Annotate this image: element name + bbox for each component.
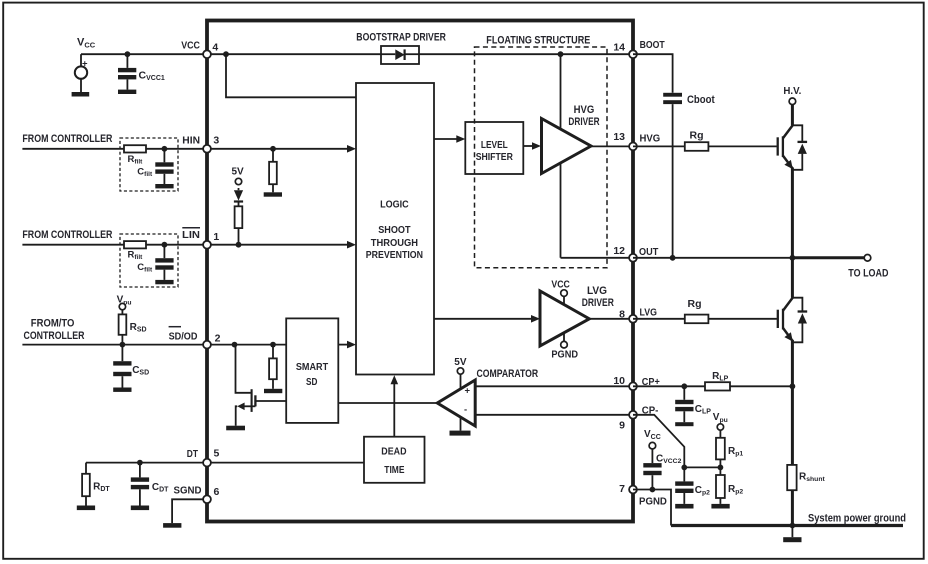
svg-text:HVG: HVG <box>574 104 595 116</box>
wire low-side emitter to shunt <box>791 340 794 465</box>
voltage source VCC <box>75 54 88 92</box>
svg-text:2: 2 <box>215 333 221 345</box>
svg-text:5V: 5V <box>232 167 245 178</box>
pin 3 HIN <box>182 135 219 153</box>
svg-text:Rg: Rg <box>688 298 702 310</box>
svg-text:9: 9 <box>619 420 625 432</box>
svg-text:LOGIC: LOGIC <box>380 198 409 210</box>
ground (CLP) <box>675 422 693 426</box>
wire pin 4 branch down to LOGIC block <box>226 54 356 97</box>
node junction Rp1/Rp2 <box>718 465 724 471</box>
svg-text:5V: 5V <box>454 357 467 368</box>
node TO LOAD terminal <box>848 254 888 279</box>
wire SGND pin to ground <box>172 499 207 523</box>
svg-text:Cboot: Cboot <box>687 94 715 106</box>
op-amp HVG driver <box>542 104 600 174</box>
node junction SD to MOSFET gate <box>232 342 238 348</box>
block LEVEL SHIFTER <box>465 122 523 174</box>
wire SMART SD output to LOGIC <box>338 341 356 349</box>
node junction CP+ / CLP <box>681 383 687 389</box>
wire comparator - input from pin 9 <box>475 414 633 416</box>
svg-text:6: 6 <box>214 486 220 498</box>
svg-text:8: 8 <box>619 309 625 321</box>
svg-text:BOOT: BOOT <box>640 39 666 51</box>
svg-text:FROM CONTROLLER: FROM CONTROLLER <box>22 229 112 241</box>
input filter dashed box (LIN) <box>120 234 178 287</box>
node H.V. terminal <box>783 85 801 105</box>
wire H.V. to high-side collector <box>791 105 794 126</box>
wire HVG driver supply rail (BOOT to OUT) <box>560 54 562 258</box>
resistor Rfilt (HIN) <box>124 145 146 165</box>
pin 2 SD/OD (active low SD) <box>169 327 221 349</box>
resistor HIN pull-down <box>269 149 277 193</box>
svg-text:5: 5 <box>214 447 220 459</box>
pin 13 HVG <box>613 131 660 150</box>
wire LOGIC to LVG driver <box>434 315 540 323</box>
resistor RLP <box>705 371 730 391</box>
node junction LIN filter <box>162 242 168 248</box>
wire comparator output to SMART SD <box>338 402 437 404</box>
svg-text:-: - <box>464 405 467 416</box>
svg-text:LVG: LVG <box>640 307 657 319</box>
svg-text:H.V.: H.V. <box>783 85 801 97</box>
svg-text:OUT: OUT <box>639 246 659 258</box>
wire SD junction to MOSFET gate <box>235 345 251 393</box>
svg-text:VCC: VCC <box>181 39 200 51</box>
wire OUT node to TO LOAD terminal <box>792 256 864 259</box>
node junction SD pull-down <box>270 342 276 348</box>
svg-text:PGND: PGND <box>639 496 667 508</box>
pin 8 LVG <box>619 307 657 323</box>
op-amp comparator <box>437 368 538 426</box>
resistor RSD <box>119 310 147 345</box>
node Vpu terminal (Rp1) <box>713 412 728 430</box>
capacitor Cboot <box>663 93 715 106</box>
node junction HIN filter <box>162 146 168 152</box>
wire CP+ pin to RLP <box>633 385 705 387</box>
diode 5V clamp (LIN) <box>234 188 243 206</box>
node junction on VCC wire <box>125 51 131 57</box>
wire LVG driver output to pin 8 <box>589 318 633 320</box>
node junction Cboot/OUT <box>670 255 676 261</box>
svg-text:13: 13 <box>613 131 625 143</box>
ground (RDT) <box>77 506 95 511</box>
svg-text:FROM/TO: FROM/TO <box>31 317 75 329</box>
svg-text:7: 7 <box>619 483 625 495</box>
svg-text:PREVENTION: PREVENTION <box>366 249 423 261</box>
node junction CVCC2 / PGND <box>650 487 656 493</box>
node junction BOOT rail to HVG driver <box>558 51 564 57</box>
capacitor CVCC1 <box>118 54 165 89</box>
svg-text:SD/OD: SD/OD <box>169 331 198 343</box>
ground (VCC source) <box>72 92 90 97</box>
svg-text:CONTROLLER: CONTROLLER <box>24 330 85 342</box>
wire SD/OD inside IC to SMART SD <box>207 344 286 346</box>
wire RLP to shunt node <box>730 385 792 387</box>
node PGND terminal (LVG driver) <box>551 333 578 361</box>
wire HVG pin to Rg <box>633 145 685 147</box>
op-amp LVG driver <box>540 285 614 346</box>
svg-text:3: 3 <box>213 135 219 147</box>
capacitor CVCC2 <box>643 449 681 490</box>
diode high-side freewheeling <box>792 125 807 170</box>
node VCC supply label <box>77 36 96 49</box>
ground (SD pull-down) <box>264 389 282 393</box>
node junction pin 4 branch <box>223 51 229 57</box>
wire HIN inside IC to LOGIC <box>207 145 356 153</box>
pin 7 PGND <box>619 483 667 508</box>
wire BOOT pin to Cboot <box>633 54 673 93</box>
dashed box FLOATING STRUCTURE <box>475 35 608 268</box>
wire DT pin to RDT/CDT <box>86 462 207 464</box>
svg-text:TIME: TIME <box>384 464 404 476</box>
svg-text:DRIVER: DRIVER <box>568 116 599 128</box>
svg-text:SGND: SGND <box>174 484 202 496</box>
pin 5 DT <box>187 447 220 466</box>
block DEAD TIME <box>364 437 425 483</box>
wire OUT pin to load <box>633 257 792 259</box>
capacitor Cfilt (HIN) <box>137 149 173 184</box>
label FROM/TO CONTROLLER (SD) <box>24 317 85 342</box>
svg-text:Rg: Rg <box>690 130 704 142</box>
node Vpu terminal (RSD) <box>117 294 132 310</box>
wire SD/OD input <box>22 344 207 346</box>
ground (CSD) <box>113 388 131 392</box>
wire divider node <box>684 466 720 468</box>
wire DEAD TIME to LOGIC <box>391 375 399 437</box>
capacitor CDT <box>131 463 169 506</box>
wire high-side emitter to OUT node <box>791 168 794 258</box>
resistor Rshunt <box>787 465 825 490</box>
wire system power ground bus <box>671 513 906 526</box>
node junction LIN clamp <box>236 242 242 248</box>
block LOGIC shoot-through prevention <box>356 83 434 375</box>
node 5V terminal (LIN clamp) <box>232 167 245 185</box>
wire LIN inside IC to LOGIC <box>207 241 356 249</box>
resistor SD pull-down <box>269 345 277 389</box>
svg-text:TO LOAD: TO LOAD <box>848 268 888 280</box>
svg-text:+: + <box>82 59 88 70</box>
node junction half-bridge output <box>790 255 796 261</box>
capacitor Cfilt (LIN) <box>137 245 173 280</box>
svg-text:PGND: PGND <box>551 349 578 361</box>
wire Rg to high-side IGBT gate <box>708 145 776 147</box>
resistor Rg (high side) <box>685 130 709 151</box>
node VCC terminal (LVG driver) <box>551 278 570 304</box>
pin 10 CP+ <box>613 375 659 390</box>
wire HIN input <box>22 148 207 150</box>
ground (Cfilt HIN) <box>155 184 173 188</box>
svg-text:LEVEL: LEVEL <box>481 139 508 151</box>
ground (system power ground) <box>783 526 801 543</box>
wire LEVEL SHIFTER to HVG driver <box>523 142 541 150</box>
block SMART SD <box>286 318 338 423</box>
capacitor CLP <box>675 386 711 422</box>
svg-text:FLOATING STRUCTURE: FLOATING STRUCTURE <box>486 35 590 47</box>
ground (SGND) <box>163 523 181 528</box>
capacitor Cp2 <box>675 467 710 504</box>
svg-text:SD: SD <box>306 376 318 388</box>
node junction DT <box>137 460 143 466</box>
svg-text:HIN: HIN <box>182 135 200 147</box>
wire Rg to low-side IGBT gate <box>708 318 777 320</box>
svg-text:10: 10 <box>613 375 625 387</box>
svg-text:LVG: LVG <box>587 285 607 297</box>
svg-text:VCC: VCC <box>551 278 570 290</box>
diode low-side freewheeling <box>792 298 807 343</box>
ground (comparator) <box>450 431 471 436</box>
svg-text:FROM CONTROLLER: FROM CONTROLLER <box>22 133 112 145</box>
svg-text:DRIVER: DRIVER <box>582 297 614 309</box>
pin 6 SGND <box>174 484 220 503</box>
diode bootstrap <box>381 49 419 60</box>
svg-text:14: 14 <box>613 42 625 54</box>
svg-text:+: + <box>465 386 471 397</box>
ground (CDT) <box>131 506 149 511</box>
wire LVG pin to Rg <box>633 318 685 320</box>
block BOOTSTRAP DRIVER <box>356 32 446 64</box>
node junction system ground <box>790 523 796 529</box>
svg-text:4: 4 <box>212 42 218 54</box>
node junction HIN pull-down <box>270 146 276 152</box>
node 5V terminal (comparator) <box>454 357 467 389</box>
svg-text:12: 12 <box>613 245 625 257</box>
node VCC terminal (CVCC2) <box>644 429 661 449</box>
node junction Cp2 <box>681 465 687 471</box>
wire Rshunt to system ground <box>791 490 794 525</box>
pin 12 OUT <box>613 245 658 262</box>
ground (Cfilt LIN) <box>155 280 173 284</box>
svg-text:SHOOT: SHOOT <box>378 224 411 236</box>
pin 14 BOOT <box>613 39 665 58</box>
ground (Rp2) <box>711 504 729 509</box>
transistor Q1 open-drain MOSFET <box>236 389 287 426</box>
svg-text:DEAD: DEAD <box>381 446 407 458</box>
wire comparator + input from pin 10 <box>475 385 633 387</box>
resistor Rfilt (LIN) <box>124 241 146 261</box>
wire LOGIC to LEVEL SHIFTER <box>434 135 465 143</box>
resistor Rp1 <box>716 430 743 467</box>
ground (Cp2) <box>675 504 693 509</box>
wire Cboot to OUT line <box>672 104 674 258</box>
resistor Rp2 <box>716 467 743 504</box>
wire HVG driver output to pin 13 <box>591 145 633 147</box>
svg-text:COMPARATOR: COMPARATOR <box>477 368 539 380</box>
pin 9 CP- <box>619 404 659 431</box>
svg-text:BOOTSTRAP DRIVER: BOOTSTRAP DRIVER <box>356 32 446 44</box>
wire OUT rail inside IC <box>561 257 634 259</box>
node junction current sense <box>790 383 796 389</box>
wire PGND pin to system ground <box>633 490 671 526</box>
transistor high-side IGBT <box>778 125 793 169</box>
svg-text:THROUGH: THROUGH <box>371 237 418 249</box>
svg-text:SHIFTER: SHIFTER <box>476 151 514 163</box>
ground (HIN pull-down) <box>264 192 282 196</box>
svg-text:DT: DT <box>187 448 199 460</box>
svg-text:SMART: SMART <box>296 361 329 373</box>
svg-text:1: 1 <box>213 231 219 243</box>
pin 4 VCC <box>181 39 218 58</box>
wire CP- pin to divider node <box>633 415 684 468</box>
svg-text:System power ground: System power ground <box>808 513 906 525</box>
wire VCC source to pin 4 <box>81 53 207 55</box>
wire comparator ground lead <box>460 418 462 431</box>
input filter dashed box (HIN) <box>120 138 178 191</box>
node junction SD pull-up <box>120 342 126 348</box>
resistor Rg (low side) <box>685 298 709 323</box>
svg-text:HVG: HVG <box>640 133 661 145</box>
pin 1 LIN (active low) <box>182 228 219 249</box>
wire OUT node to low-side collector <box>791 258 794 298</box>
IC package outline U1 <box>207 21 633 522</box>
resistor LIN pull-up to 5V <box>235 206 243 244</box>
ground (CVCC1) <box>118 90 136 94</box>
transistor low-side IGBT <box>778 298 793 342</box>
wire LIN input <box>22 244 207 246</box>
svg-text:LIN: LIN <box>182 229 200 241</box>
ground (MOSFET source) <box>226 426 245 431</box>
wire VCC rail inside IC: pin 4 to BOOT pin 14 <box>207 53 633 55</box>
resistor RDT <box>82 463 110 506</box>
capacitor CSD <box>113 345 149 388</box>
wire DT pin to DEAD TIME block <box>207 462 364 464</box>
